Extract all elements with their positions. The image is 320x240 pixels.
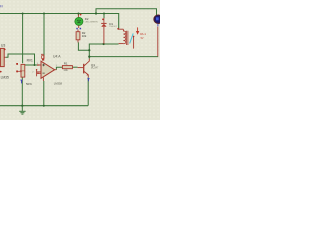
wire collector node to buzzer return xyxy=(89,56,158,58)
svg-text:D1: D1 xyxy=(109,22,113,26)
relay RL1 pole arrow xyxy=(136,27,139,34)
junction rail / D1 drop xyxy=(103,13,105,15)
resistor R2 xyxy=(76,30,80,43)
svg-text:R1: R1 xyxy=(64,62,68,66)
wire R2 bottom to collector node xyxy=(78,42,89,50)
junction collector node / R2 branch xyxy=(88,49,90,51)
wire pot wiper level segment xyxy=(25,64,38,66)
svg-text:LED-GREEN: LED-GREEN xyxy=(85,22,98,24)
wire op-amp output to R1 xyxy=(56,67,62,70)
svg-text:D2: D2 xyxy=(85,17,89,21)
junction rail / RV1 drop xyxy=(22,13,24,15)
svg-text:U4:A: U4:A xyxy=(53,54,61,58)
junction rail / op-amp V+ drop xyxy=(43,13,45,15)
junction LM35 line / IN+ line xyxy=(34,64,36,66)
junction rail / LED drop xyxy=(77,13,79,15)
svg-text:RV1: RV1 xyxy=(27,59,33,63)
svg-text:10k: 10k xyxy=(63,68,68,72)
wire buzzer feed branch xyxy=(96,9,157,15)
op-amp U4:A LM358 xyxy=(37,54,56,81)
temperature sensor U3 LM35 xyxy=(0,48,6,72)
relay RL1 contact arm xyxy=(130,33,134,43)
junction rail / buzzer branch xyxy=(95,12,97,14)
diode D1 1N4007 (flyback) xyxy=(101,18,106,44)
svg-text:50%: 50% xyxy=(26,82,32,86)
wire RV1 bottom to ground rail xyxy=(21,77,23,105)
junction collector node / buzzer return xyxy=(88,56,90,58)
wire R1 to Q1 base xyxy=(72,66,77,68)
relay RL1 contact pin xyxy=(133,36,135,49)
junction ground rail / op-amp V- leg xyxy=(43,105,45,107)
LED D2 (green, lit) xyxy=(75,14,83,30)
wire rail to op-amp V+ pin xyxy=(43,14,45,56)
svg-text:LM35: LM35 xyxy=(1,75,9,79)
svg-text:1N4007: 1N4007 xyxy=(109,26,117,28)
svg-text:LM358: LM358 xyxy=(54,81,63,85)
svg-text:10k: 10k xyxy=(82,34,87,38)
relay RL1 coil xyxy=(117,28,128,45)
wire rail to RV1 top xyxy=(22,14,24,64)
wire rail to diode D1 cathode xyxy=(103,14,105,19)
current arrow on emitter wire xyxy=(88,78,90,81)
resistor R1 xyxy=(62,66,72,69)
op-amp IN- pin link xyxy=(36,69,41,76)
svg-text:U3: U3 xyxy=(1,44,6,48)
svg-text:BC547: BC547 xyxy=(91,67,99,70)
svg-text:RL1: RL1 xyxy=(140,32,146,36)
wire top +V rail to relay coil xyxy=(0,14,119,29)
ground symbol xyxy=(19,106,25,114)
buzzer BUZ1 xyxy=(154,15,163,57)
potentiometer RV1 xyxy=(16,63,25,77)
wire LM35 output to op-amp IN+ xyxy=(6,54,40,65)
wire rail to LED D2 anode xyxy=(77,14,79,16)
current arrow on pot ground wire xyxy=(21,80,23,84)
wire op-amp V- to ground rail xyxy=(43,81,45,106)
wire bottom ground rail xyxy=(0,105,88,107)
wire Q1 collector riser to relay coil xyxy=(89,44,118,59)
junction ground rail / RV1 leg xyxy=(21,105,23,107)
wire Q1 emitter to ground rail xyxy=(87,77,89,105)
junction relay line / D1 anode xyxy=(103,43,105,45)
power terminal label +12V (clipped at left edge) xyxy=(0,5,3,7)
transistor Q1 BC547 xyxy=(78,59,90,78)
svg-text:5V: 5V xyxy=(141,37,144,40)
